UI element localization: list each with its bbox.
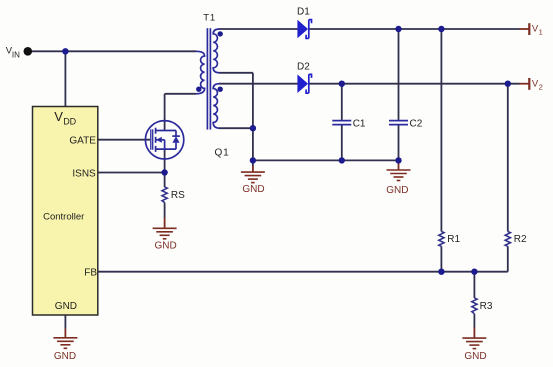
svg-text:C2: C2 bbox=[410, 119, 423, 130]
svg-text:GND: GND bbox=[55, 301, 77, 312]
svg-text:GND: GND bbox=[54, 351, 76, 362]
svg-text:GND: GND bbox=[155, 240, 177, 251]
svg-text:RS: RS bbox=[171, 190, 185, 201]
svg-text:GND: GND bbox=[386, 185, 408, 196]
svg-text:R3: R3 bbox=[480, 301, 493, 312]
svg-text:GATE: GATE bbox=[69, 135, 96, 146]
svg-text:1: 1 bbox=[539, 27, 543, 36]
svg-text:R2: R2 bbox=[514, 234, 527, 245]
svg-text:DD: DD bbox=[63, 116, 76, 126]
svg-text:2: 2 bbox=[539, 82, 543, 91]
svg-text:GND: GND bbox=[242, 184, 264, 195]
svg-text:IN: IN bbox=[12, 50, 20, 59]
svg-text:D2: D2 bbox=[297, 62, 310, 73]
svg-text:T1: T1 bbox=[203, 12, 216, 23]
svg-text:GND: GND bbox=[464, 351, 486, 362]
svg-text:ISNS: ISNS bbox=[72, 169, 96, 180]
svg-text:FB: FB bbox=[84, 268, 97, 279]
svg-text:R1: R1 bbox=[447, 234, 460, 245]
svg-text:V: V bbox=[54, 109, 63, 124]
svg-text:Q1: Q1 bbox=[215, 148, 230, 159]
svg-text:Controller: Controller bbox=[43, 212, 84, 223]
svg-text:C1: C1 bbox=[353, 119, 366, 130]
svg-text:D1: D1 bbox=[297, 7, 310, 18]
